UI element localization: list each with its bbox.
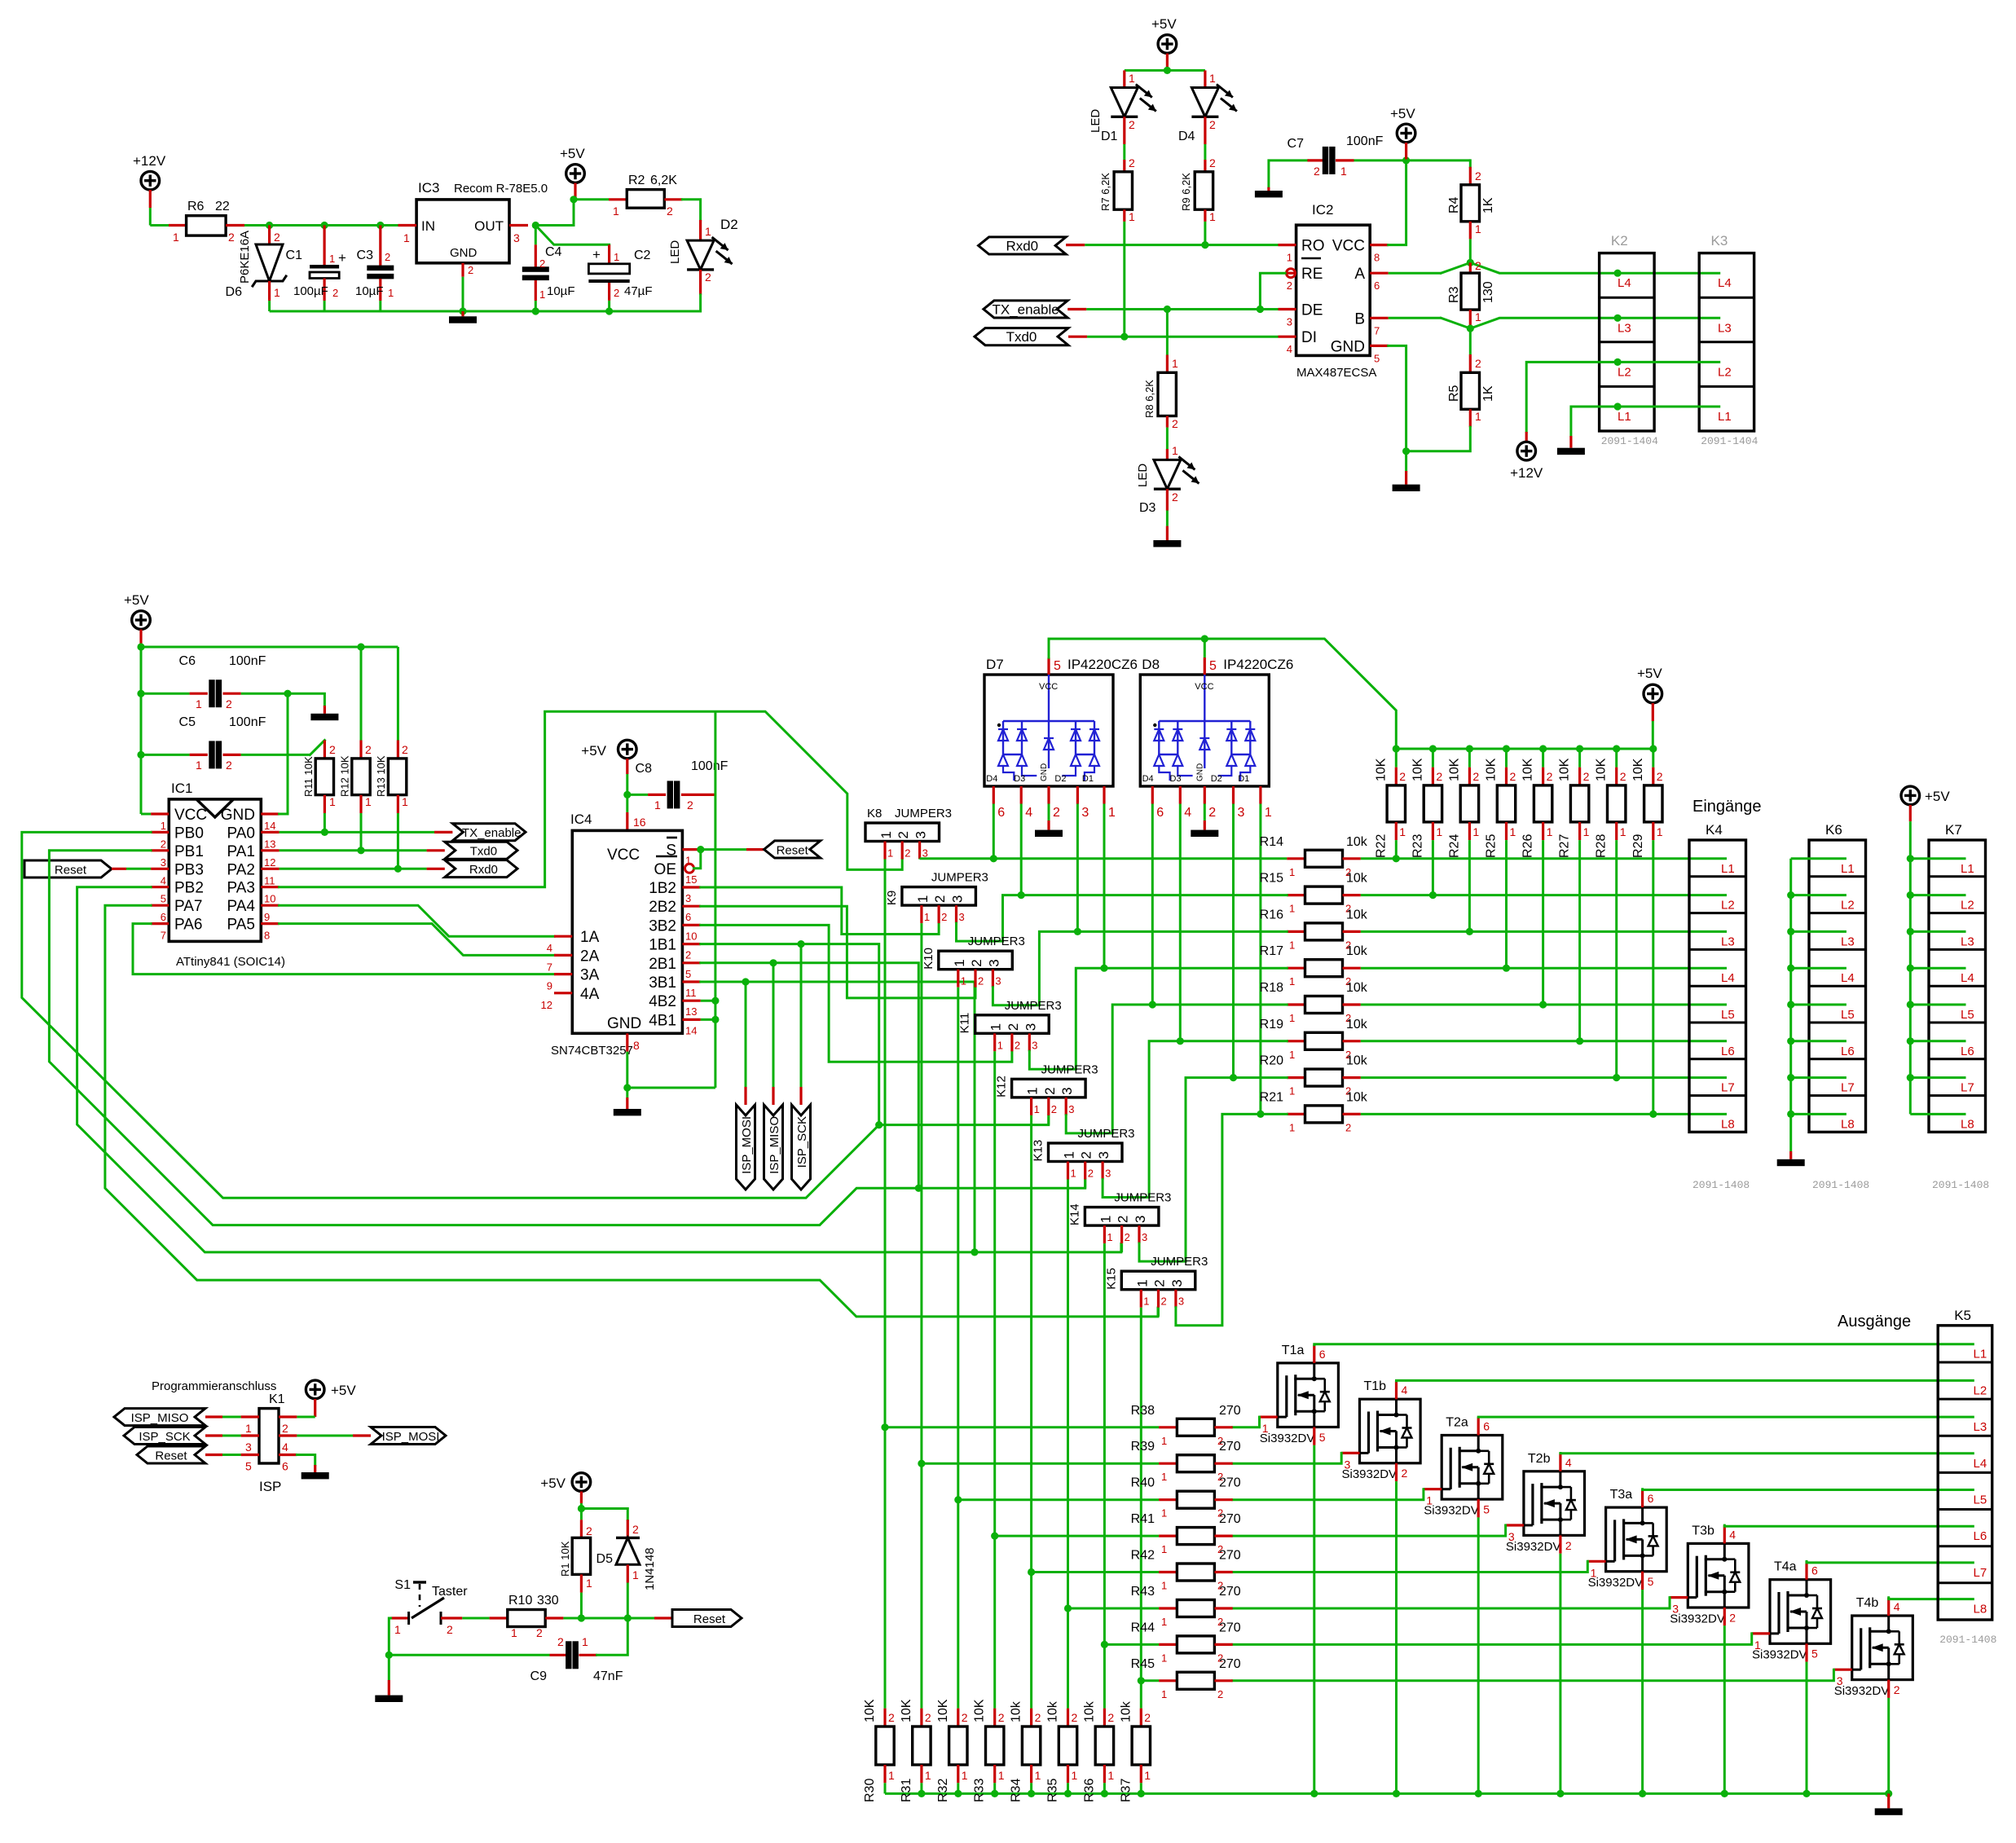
wire reset row to flag xyxy=(627,1617,654,1620)
svg-text:JUMPER3: JUMPER3 xyxy=(895,807,952,820)
svg-text:6: 6 xyxy=(1648,1492,1654,1505)
node bus T2b xyxy=(1556,1790,1564,1797)
svg-text:L7: L7 xyxy=(1961,1081,1974,1095)
svg-text:R28: R28 xyxy=(1595,834,1609,858)
svg-text:1: 1 xyxy=(1161,1616,1167,1628)
resistor R18 10k xyxy=(1287,1003,1305,1005)
capacitor C7 100nF xyxy=(1269,161,1308,187)
flag Rxd0 IC1 xyxy=(445,860,517,878)
wire input row L7 xyxy=(1361,1076,1727,1079)
capacitor C9 47nF xyxy=(550,1654,568,1656)
jumper K10 pin3 stub xyxy=(992,970,994,987)
wire net 2B2 to K10 xyxy=(701,906,975,998)
svg-text:1: 1 xyxy=(998,1769,1005,1782)
svg-text:2091-1408: 2091-1408 xyxy=(1692,1179,1750,1191)
wire C7 to +5V node xyxy=(1354,159,1471,161)
svg-text:10k: 10k xyxy=(1346,835,1368,849)
svg-text:2B2: 2B2 xyxy=(649,899,676,916)
svg-text:D2: D2 xyxy=(1211,774,1222,784)
svg-text:+5V: +5V xyxy=(331,1383,356,1398)
ground symbol D8 xyxy=(1191,830,1218,837)
wire gnd row IC4 xyxy=(627,1087,715,1089)
node gate row R43 xyxy=(1064,1604,1072,1612)
svg-text:1: 1 xyxy=(161,820,166,832)
svg-text:ISP_MISO: ISP_MISO xyxy=(768,1116,781,1174)
svg-text:1: 1 xyxy=(915,895,931,903)
svg-text:10K: 10K xyxy=(973,1699,987,1722)
svg-text:1: 1 xyxy=(1475,310,1481,323)
IC2 pin B xyxy=(1370,317,1389,319)
wire R37 to gnd bus xyxy=(1140,1783,1142,1793)
wire T1a drain to K5 L1 xyxy=(1313,1345,1315,1363)
svg-text:2091-1408: 2091-1408 xyxy=(1939,1634,1996,1646)
svg-text:270: 270 xyxy=(1219,1621,1241,1634)
svg-text:L3: L3 xyxy=(1618,321,1631,335)
ground symbol power xyxy=(461,311,464,316)
wire R12 riser xyxy=(360,647,363,741)
svg-text:IP4220CZ6: IP4220CZ6 xyxy=(1067,657,1138,672)
jumper K8 pin1 stub xyxy=(883,842,886,860)
node gate row R42 xyxy=(1028,1568,1035,1576)
wire K1 pin4 to ISP_MOSI xyxy=(297,1435,353,1437)
wire T3a drain to K5 L5 xyxy=(1641,1489,1644,1507)
svg-text:3: 3 xyxy=(1672,1603,1679,1616)
node D8 col L6 xyxy=(1177,1037,1184,1045)
svg-text:2: 2 xyxy=(888,1711,895,1724)
wire net PB0 xyxy=(22,832,879,1198)
svg-text:C6: C6 xyxy=(179,654,196,668)
jumper K13 pin2 stub xyxy=(1084,1162,1086,1180)
resistor R25 10K xyxy=(1505,749,1508,768)
svg-text:R43: R43 xyxy=(1131,1585,1155,1599)
node D7 col L1 xyxy=(990,855,997,862)
IC2 MAX487ECSA xyxy=(1296,225,1371,355)
svg-text:6: 6 xyxy=(1811,1564,1818,1577)
svg-text:1: 1 xyxy=(1754,1638,1761,1652)
svg-text:ISP: ISP xyxy=(259,1479,281,1494)
wire K6 stub L1 xyxy=(1791,857,1847,860)
svg-text:1: 1 xyxy=(1143,1295,1149,1308)
svg-text:K1: K1 xyxy=(269,1392,285,1406)
svg-text:IN: IN xyxy=(421,218,435,234)
svg-text:2: 2 xyxy=(1729,1611,1736,1624)
wire T1b source to gnd bus xyxy=(1395,1463,1398,1481)
svg-text:10K: 10K xyxy=(1447,758,1461,781)
svg-text:3: 3 xyxy=(1238,806,1245,820)
wire R9 to Rxd0 row xyxy=(1204,222,1206,245)
node rail R12 xyxy=(357,643,364,650)
power +5V P2 xyxy=(566,165,585,183)
svg-text:ISP_MISO: ISP_MISO xyxy=(131,1411,189,1425)
svg-text:1: 1 xyxy=(1287,252,1292,264)
resistor R33 10K xyxy=(993,1709,996,1726)
wire T2a drain to K5 L3 xyxy=(1477,1417,1480,1435)
wire esd vcc rail xyxy=(1047,658,1050,675)
wire T3b drain to K5 L6 xyxy=(1723,1525,1726,1543)
svg-text:330: 330 xyxy=(537,1594,559,1608)
svg-text:6: 6 xyxy=(161,911,166,923)
wire gnd col IC1 xyxy=(287,693,289,814)
IC2 pin VCC xyxy=(1370,244,1389,246)
svg-text:ISP_MOSI: ISP_MOSI xyxy=(740,1116,754,1174)
wire IC2 GND down xyxy=(1389,345,1406,471)
svg-text:2: 2 xyxy=(687,798,693,812)
svg-text:1: 1 xyxy=(1129,210,1135,223)
flag Reset ISP xyxy=(137,1446,205,1463)
svg-text:K6: K6 xyxy=(1825,822,1842,838)
wire C8 gnd riser xyxy=(714,711,716,1088)
svg-text:2: 2 xyxy=(332,287,338,299)
wire K7 stub L8 xyxy=(1910,1113,1965,1115)
node D8 col L8 xyxy=(1257,1111,1264,1118)
wire K8 pin3 to row L1 xyxy=(918,857,921,860)
svg-text:R9 6,2K: R9 6,2K xyxy=(1180,173,1192,211)
svg-text:T2b: T2b xyxy=(1528,1452,1551,1466)
svg-text:Ausgänge: Ausgänge xyxy=(1838,1313,1911,1331)
wire net 3B2 to K11 xyxy=(701,925,1012,1062)
svg-text:1: 1 xyxy=(274,286,280,299)
node D8 col L7 xyxy=(1230,1074,1237,1081)
IC4 pin 4B1 xyxy=(682,1018,700,1021)
D7 pin 6 xyxy=(993,786,995,804)
svg-text:4: 4 xyxy=(1894,1600,1900,1613)
svg-text:5: 5 xyxy=(1209,659,1217,673)
D8 pin 1 xyxy=(1259,786,1261,804)
wire R45 row left xyxy=(1141,1679,1159,1682)
wire +5V column IC1 xyxy=(140,647,143,814)
node K2 L1 xyxy=(1614,402,1622,410)
node D5 reset row xyxy=(624,1614,632,1621)
ground symbol K2 xyxy=(1557,448,1585,455)
svg-text:1: 1 xyxy=(1436,825,1442,838)
svg-text:100nF: 100nF xyxy=(1346,134,1384,148)
resistor R44 270 xyxy=(1159,1643,1177,1646)
D7 pin 2 xyxy=(1047,786,1050,804)
wire K13 pin3 to riser xyxy=(1103,1041,1287,1198)
svg-text:1: 1 xyxy=(1289,975,1295,987)
svg-text:2: 2 xyxy=(586,1524,592,1537)
capacitor C1 100uF xyxy=(324,226,326,267)
svg-text:L6: L6 xyxy=(1841,1045,1855,1058)
IC1 pin PB3 xyxy=(151,868,169,870)
resistor R34 10K xyxy=(1030,1709,1032,1726)
node bus R33 xyxy=(991,1790,998,1797)
node R27 row xyxy=(1576,1037,1583,1045)
resistor R3 130 xyxy=(1469,262,1472,273)
wire K9 pin1 column xyxy=(920,923,922,1709)
svg-text:Rxd0: Rxd0 xyxy=(469,863,498,877)
svg-text:2: 2 xyxy=(1547,770,1553,783)
IC4 pin 4A xyxy=(554,992,572,994)
wire K6 stub L8 xyxy=(1791,1113,1847,1115)
svg-text:3: 3 xyxy=(1345,1458,1351,1471)
svg-text:10: 10 xyxy=(264,893,275,905)
wire +5V to D1 and D4 xyxy=(1125,69,1205,72)
svg-text:1: 1 xyxy=(196,697,202,710)
svg-text:C9: C9 xyxy=(530,1669,548,1683)
wire K7 stub L2 xyxy=(1910,894,1965,896)
wire K13 pin2 stub join xyxy=(1084,1180,1086,1188)
IC1 pin GND xyxy=(261,812,279,815)
capacitor C2 47uF xyxy=(608,244,610,264)
wire R34 to gnd bus xyxy=(1030,1783,1032,1793)
svg-text:IC4: IC4 xyxy=(570,812,592,827)
svg-text:8: 8 xyxy=(264,930,270,942)
svg-text:12: 12 xyxy=(264,856,275,869)
svg-text:R38: R38 xyxy=(1131,1404,1155,1418)
svg-text:R5: R5 xyxy=(1447,385,1461,402)
svg-text:10k: 10k xyxy=(1346,981,1368,995)
svg-text:SN74CBT3257: SN74CBT3257 xyxy=(551,1044,633,1058)
resistor R45 270 xyxy=(1159,1679,1177,1682)
svg-text:4: 4 xyxy=(1287,343,1292,355)
D8 pin 4 xyxy=(1179,786,1182,804)
svg-text:2A: 2A xyxy=(580,948,600,965)
svg-text:1: 1 xyxy=(1161,1507,1167,1520)
svg-text:R16: R16 xyxy=(1260,908,1283,921)
power +12V P1 xyxy=(141,171,160,190)
wire K10 pin1 column xyxy=(957,987,959,1709)
wire IC4 VCC pin16 xyxy=(626,794,628,812)
svg-text:Taster: Taster xyxy=(432,1585,468,1599)
node 3B1 K14 junction xyxy=(971,1248,978,1256)
wire T4a drain to K5 L7 xyxy=(1805,1561,1807,1579)
wire T4a gate xyxy=(1752,1632,1770,1634)
svg-text:2: 2 xyxy=(1209,156,1216,169)
svg-text:L5: L5 xyxy=(1841,1008,1855,1022)
svg-text:+5V: +5V xyxy=(124,592,149,608)
svg-text:2: 2 xyxy=(1217,1688,1223,1700)
svg-text:+5V: +5V xyxy=(1151,16,1177,32)
power +5V P8 xyxy=(1644,684,1662,703)
wire D7 col to L4 row xyxy=(1103,804,1106,969)
svg-text:6: 6 xyxy=(1483,1420,1490,1433)
wire K12 pin3 to riser xyxy=(1066,1005,1287,1133)
wire S1 gnd xyxy=(388,1655,390,1680)
resistor R19 10k xyxy=(1287,1040,1305,1042)
wire K1 pin6 to gnd xyxy=(297,1455,315,1466)
svg-text:R35: R35 xyxy=(1046,1779,1060,1802)
svg-text:2: 2 xyxy=(1475,259,1481,272)
wire IC1 VCC xyxy=(141,813,151,816)
svg-text:ISP_SCK: ISP_SCK xyxy=(139,1430,190,1444)
svg-text:2: 2 xyxy=(536,1626,543,1639)
D8 pin 3 xyxy=(1232,786,1235,804)
svg-text:2: 2 xyxy=(226,697,232,710)
svg-text:1: 1 xyxy=(1098,1216,1113,1223)
svg-text:L3: L3 xyxy=(1721,935,1735,948)
wire S to OE xyxy=(694,850,701,869)
node R1 reset row xyxy=(578,1614,585,1621)
power +5V P4 xyxy=(1397,124,1415,143)
svg-text:1: 1 xyxy=(1583,825,1590,838)
ground symbol D7 xyxy=(1035,830,1063,837)
svg-text:1N4148: 1N4148 xyxy=(643,1547,657,1590)
flag ISP_MOSI mid xyxy=(745,982,747,1087)
node gate row R45 xyxy=(1138,1677,1145,1684)
wire T3b gate xyxy=(1670,1596,1688,1599)
IC1 pin PA1 xyxy=(261,849,279,851)
wire D8 col to L5 row xyxy=(1151,804,1154,1005)
svg-text:R30: R30 xyxy=(863,1779,877,1802)
svg-text:K9: K9 xyxy=(885,891,899,905)
resistor R1 10K xyxy=(580,1509,583,1520)
wire R3 bottom to K2 L3 xyxy=(1470,318,1719,328)
transistor T4b Si3932DV xyxy=(1852,1616,1913,1680)
svg-text:1: 1 xyxy=(988,1023,1004,1031)
svg-text:3A: 3A xyxy=(580,967,600,984)
svg-text:3: 3 xyxy=(1105,1168,1111,1180)
resistor R12 10K xyxy=(359,741,362,759)
wire T3a gate xyxy=(1587,1560,1605,1563)
svg-text:R14: R14 xyxy=(1260,835,1283,849)
svg-text:7: 7 xyxy=(1374,324,1380,336)
node K6 L6 xyxy=(1787,1037,1794,1045)
svg-text:10µF: 10µF xyxy=(547,284,575,298)
node gate row R38 xyxy=(881,1423,888,1431)
svg-text:3B1: 3B1 xyxy=(649,974,676,992)
wire T2b drain to K5 L4 xyxy=(1559,1454,1561,1471)
svg-text:15: 15 xyxy=(685,873,697,886)
svg-text:L5: L5 xyxy=(1974,1493,1987,1507)
svg-text:1: 1 xyxy=(365,795,372,808)
svg-text:3: 3 xyxy=(1142,1231,1147,1243)
resistor R23 10K xyxy=(1432,749,1434,768)
svg-text:6: 6 xyxy=(685,911,691,923)
resistor R9 6,2K xyxy=(1204,160,1206,172)
flag ISP_MOSI xyxy=(371,1427,446,1445)
wire S junction Reset xyxy=(697,846,704,853)
node bus R22 xyxy=(1393,745,1400,752)
node R26 row xyxy=(1539,1001,1547,1008)
svg-text:10k: 10k xyxy=(1010,1700,1023,1722)
jumper K11 pin2 stub xyxy=(1010,1033,1013,1051)
svg-text:10K: 10K xyxy=(863,1699,877,1722)
svg-text:5: 5 xyxy=(1811,1647,1818,1660)
svg-text:4B2: 4B2 xyxy=(649,993,676,1010)
svg-text:1: 1 xyxy=(1108,806,1116,820)
svg-text:R21: R21 xyxy=(1260,1090,1283,1104)
svg-text:Programmieranschluss: Programmieranschluss xyxy=(152,1379,276,1393)
esd array D8 IP4220CZ6 xyxy=(1140,675,1269,786)
svg-text:2: 2 xyxy=(905,847,910,860)
wire T1a source to gnd bus xyxy=(1313,1427,1315,1445)
flag TX_enable IC1 xyxy=(452,824,526,841)
svg-text:K11: K11 xyxy=(958,1013,972,1034)
resistor R40 270 xyxy=(1159,1498,1177,1501)
node K6 L5 xyxy=(1787,1001,1794,1008)
svg-text:2: 2 xyxy=(161,838,166,850)
wire C9 to D5 column xyxy=(597,1618,628,1655)
svg-text:1: 1 xyxy=(1289,1121,1295,1133)
svg-text:Reset: Reset xyxy=(155,1449,187,1463)
wire T3b source to gnd bus xyxy=(1723,1608,1726,1625)
node +5V junction R2 xyxy=(570,196,577,203)
resistor R42 270 xyxy=(1159,1571,1177,1573)
svg-text:16: 16 xyxy=(633,816,646,829)
wire R24 to L3 row xyxy=(1468,840,1471,931)
wire S1 to R10 xyxy=(462,1617,489,1620)
wire R29 to L8 row xyxy=(1652,840,1654,1114)
svg-text:R19: R19 xyxy=(1260,1018,1283,1031)
wire D7 col to L2 row xyxy=(1020,804,1023,895)
svg-text:2: 2 xyxy=(557,1635,564,1648)
svg-text:3: 3 xyxy=(959,911,965,923)
svg-text:D6: D6 xyxy=(226,285,243,299)
node gate row R40 xyxy=(954,1496,962,1503)
jumper K15 pin2 stub xyxy=(1157,1290,1160,1308)
svg-text:R1 10K: R1 10K xyxy=(559,1541,571,1577)
wire D8 col to L8 row xyxy=(1259,804,1261,1115)
IC1 pin PA4 xyxy=(261,904,279,907)
wire D4 to R9 xyxy=(1204,144,1206,160)
svg-text:1: 1 xyxy=(173,231,179,244)
node gate row R39 xyxy=(918,1460,925,1467)
svg-text:K2: K2 xyxy=(1611,233,1628,249)
wire R35 to gnd bus xyxy=(1067,1783,1069,1793)
svg-text:6: 6 xyxy=(1156,806,1164,820)
node gate row R41 xyxy=(991,1533,998,1540)
svg-text:9: 9 xyxy=(547,980,552,992)
svg-text:2: 2 xyxy=(632,1523,639,1536)
wire R30 to gnd bus xyxy=(884,1783,887,1793)
node C9 junction xyxy=(385,1652,393,1659)
flag Rxd0 rs485 xyxy=(979,237,1067,254)
svg-text:GND: GND xyxy=(221,807,255,824)
svg-text:2: 2 xyxy=(978,975,984,987)
wire Reset to PB3 xyxy=(112,868,126,870)
svg-text:GND: GND xyxy=(1040,763,1049,781)
svg-text:1: 1 xyxy=(962,1769,968,1782)
LED D2 xyxy=(699,220,702,240)
wire R10 to reset junctions xyxy=(563,1617,581,1620)
svg-text:3: 3 xyxy=(950,895,966,903)
svg-text:6: 6 xyxy=(1374,279,1380,292)
wire net 1B1 xyxy=(701,944,879,1125)
svg-text:Reset: Reset xyxy=(693,1612,726,1626)
svg-text:L7: L7 xyxy=(1721,1081,1735,1095)
wire TX_enable row xyxy=(1067,308,1086,310)
svg-text:L8: L8 xyxy=(1721,1117,1735,1131)
svg-text:Txd0: Txd0 xyxy=(470,845,497,859)
svg-text:1: 1 xyxy=(1265,806,1272,820)
svg-text:PA0: PA0 xyxy=(227,825,255,842)
power +5V P11 xyxy=(572,1473,591,1492)
svg-text:3: 3 xyxy=(922,847,928,860)
wire Rxd0 row xyxy=(1066,244,1085,246)
svg-text:100nF: 100nF xyxy=(229,654,266,668)
wire RE to DE xyxy=(1260,273,1286,309)
transistor T3b Si3932DV xyxy=(1688,1543,1749,1608)
wire D8 col to L7 row xyxy=(1232,804,1235,1078)
wire R28 to L7 row xyxy=(1615,840,1618,1078)
svg-text:6,2K: 6,2K xyxy=(650,174,677,187)
svg-text:JUMPER3: JUMPER3 xyxy=(1151,1255,1208,1269)
svg-text:C3: C3 xyxy=(357,249,374,262)
svg-text:11: 11 xyxy=(685,987,697,999)
node R22 row xyxy=(1393,855,1400,862)
diode D5 1N4148 xyxy=(627,1520,629,1537)
wire R23 to L2 row xyxy=(1432,840,1434,895)
node reset +5V junction xyxy=(578,1505,585,1512)
flag Reset IC4 xyxy=(764,841,821,858)
svg-text:L1: L1 xyxy=(1618,410,1631,424)
wire K7 bus xyxy=(1909,821,1912,1114)
wire R40 row left xyxy=(958,1498,1159,1501)
svg-text:K4: K4 xyxy=(1706,822,1723,838)
svg-text:1: 1 xyxy=(1475,222,1481,235)
wire T4b drain to K5 L8 xyxy=(1887,1598,1890,1616)
